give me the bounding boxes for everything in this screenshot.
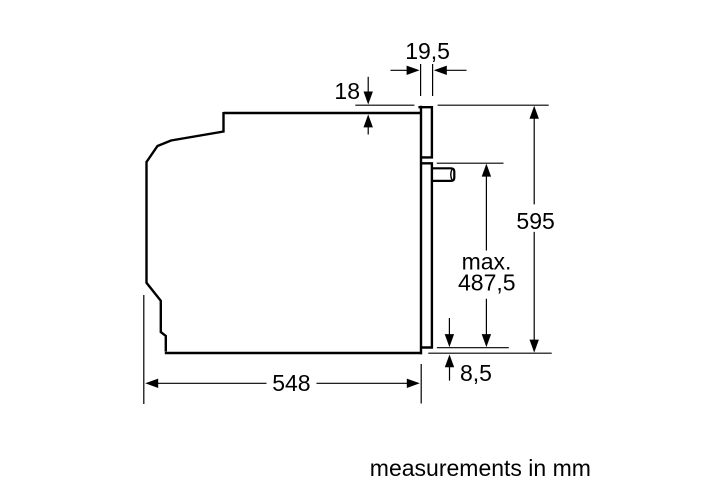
bottom reference line (595 bottom) bbox=[428, 352, 551, 354]
oven body outline bbox=[147, 112, 423, 353]
dim 18 reference line bbox=[355, 104, 414, 106]
dim 548 extension line left bbox=[143, 295, 145, 404]
max 487,5 reference line (door top) bbox=[437, 162, 504, 164]
dim 548 left arrow bbox=[145, 379, 158, 388]
top reference line right (595 top) bbox=[438, 104, 549, 106]
dim 8,5 up arrow bbox=[449, 367, 451, 381]
dim 548 extension line right bbox=[420, 364, 422, 404]
dim 595 line with arrows bbox=[533, 117, 535, 342]
knob end-cap arc bbox=[451, 170, 452, 180]
svg-text:548: 548 bbox=[272, 370, 310, 396]
svg-text:8,5: 8,5 bbox=[460, 360, 492, 386]
svg-text:595: 595 bbox=[516, 208, 554, 234]
svg-text:487,5: 487,5 bbox=[458, 269, 516, 295]
dim 19,5 extension line left bbox=[420, 64, 422, 96]
dim 18 up arrow bbox=[367, 127, 369, 135]
dim 18 down arrow bbox=[367, 77, 369, 92]
dim 548 right arrow bbox=[407, 379, 420, 388]
door panel front bbox=[418, 106, 433, 354]
dim 548 line bbox=[158, 382, 408, 384]
dim 19,5 left arrow bbox=[391, 69, 408, 71]
dim 19,5 extension line right bbox=[432, 64, 434, 96]
dim max487,5 line with arrows bbox=[485, 175, 487, 336]
dim 8,5 down arrow bbox=[448, 318, 450, 335]
door bottom reference line (8,5 top) bbox=[437, 347, 509, 349]
control knob bbox=[433, 168, 454, 181]
svg-text:19,5: 19,5 bbox=[405, 38, 450, 64]
dim 19,5 right arrow bbox=[447, 69, 467, 71]
svg-text:measurements in mm: measurements in mm bbox=[370, 455, 591, 481]
svg-text:18: 18 bbox=[334, 78, 360, 104]
